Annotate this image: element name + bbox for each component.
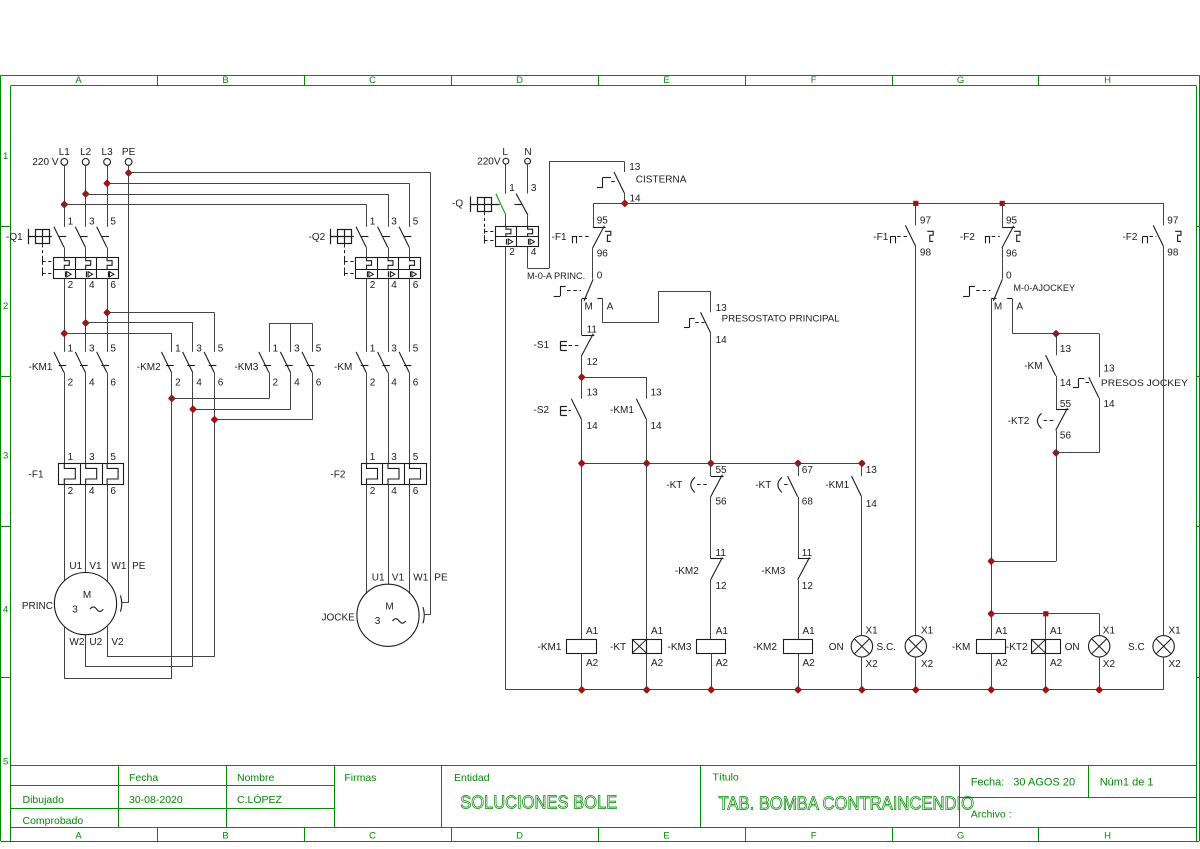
svg-text:13: 13 bbox=[651, 388, 663, 399]
star point bar above KM3 bbox=[269, 323, 312, 325]
svg-text:1: 1 bbox=[68, 344, 74, 355]
svg-text:5: 5 bbox=[110, 452, 116, 463]
svg-text:S.C: S.C bbox=[1128, 642, 1145, 653]
wire presostato out bbox=[710, 333, 712, 463]
svg-text:-S1: -S1 bbox=[534, 340, 550, 351]
svg-text:-KM3: -KM3 bbox=[761, 566, 785, 577]
svg-text:L1: L1 bbox=[59, 147, 71, 158]
svg-text:3: 3 bbox=[196, 344, 202, 355]
svg-text:13: 13 bbox=[866, 465, 878, 476]
svg-text:A2: A2 bbox=[1050, 658, 1063, 669]
node bottom rail KM3 coil bbox=[709, 688, 714, 693]
wire KM coil out bbox=[991, 653, 993, 690]
svg-text:4: 4 bbox=[89, 486, 95, 497]
svg-text:W2: W2 bbox=[69, 637, 84, 648]
wire KM1 coil out bbox=[581, 653, 583, 690]
svg-text:L3: L3 bbox=[102, 147, 114, 158]
svg-text:A1: A1 bbox=[716, 626, 729, 637]
wire KM2 out 4 bbox=[192, 373, 194, 668]
svg-text:Nombre: Nombre bbox=[237, 772, 275, 784]
svg-text:-KM: -KM bbox=[952, 642, 970, 653]
wire KT55 out bbox=[710, 497, 712, 559]
wire F1 out W1 bbox=[107, 485, 109, 581]
svg-text:30-08-2020: 30-08-2020 bbox=[129, 794, 183, 806]
svg-text:-KM2: -KM2 bbox=[753, 642, 777, 653]
wire S2 out bbox=[581, 419, 583, 463]
wire Q2 pole1 output bbox=[366, 279, 368, 352]
svg-text:PE: PE bbox=[434, 572, 448, 583]
svg-text:X1: X1 bbox=[866, 625, 879, 636]
svg-text:3: 3 bbox=[89, 217, 95, 228]
svg-text:13: 13 bbox=[716, 303, 728, 314]
svg-text:2: 2 bbox=[273, 377, 279, 388]
wire jockey A branch bbox=[1012, 299, 1014, 334]
svg-text:F: F bbox=[811, 831, 817, 842]
wire KM out 4 bbox=[388, 373, 390, 464]
node jockey coil rail left bbox=[989, 612, 994, 617]
svg-text:95: 95 bbox=[1006, 215, 1018, 226]
svg-text:A1: A1 bbox=[651, 626, 664, 637]
wire KT67 out bbox=[798, 497, 800, 559]
svg-text:M: M bbox=[994, 302, 1002, 313]
wire KT2-56 down bbox=[1056, 431, 1058, 562]
svg-text:2: 2 bbox=[370, 486, 376, 497]
svg-text:-KM1: -KM1 bbox=[29, 362, 53, 373]
svg-text:-F2: -F2 bbox=[960, 232, 975, 243]
node bottom rail KM1 coil bbox=[579, 688, 584, 693]
svg-text:56: 56 bbox=[716, 497, 728, 508]
svg-text:Fecha: Fecha bbox=[129, 772, 158, 784]
svg-text:55: 55 bbox=[1060, 399, 1072, 410]
wire control top rail bbox=[593, 203, 1163, 205]
svg-text:5: 5 bbox=[110, 344, 116, 355]
svg-text:U2: U2 bbox=[89, 637, 102, 648]
svg-text:SOLUCIONES BOLE: SOLUCIONES BOLE bbox=[460, 792, 617, 813]
wire Q1 pole3 output bbox=[107, 279, 109, 352]
node mid rail presostato bbox=[709, 461, 714, 466]
wire KM coil feed bbox=[991, 614, 993, 639]
svg-text:A: A bbox=[607, 302, 614, 313]
wire KT coil out bbox=[646, 653, 648, 690]
svg-text:Fecha:: Fecha: bbox=[971, 777, 1005, 789]
svg-text:-KT2: -KT2 bbox=[1008, 416, 1030, 427]
svg-text:1: 1 bbox=[370, 217, 376, 228]
svg-text:12: 12 bbox=[716, 581, 728, 592]
svg-text:3: 3 bbox=[3, 450, 8, 461]
svg-text:-KM2: -KM2 bbox=[675, 566, 699, 577]
svg-text:30 AGOS 20: 30 AGOS 20 bbox=[1013, 777, 1075, 789]
svg-text:Archivo :: Archivo : bbox=[971, 808, 1012, 820]
svg-text:-KM3: -KM3 bbox=[234, 362, 258, 373]
node tap to KM2 pole3 bbox=[83, 321, 88, 326]
svg-text:4: 4 bbox=[89, 377, 95, 388]
svg-text:Comprobado: Comprobado bbox=[23, 815, 84, 827]
wire S1 out bbox=[581, 356, 583, 377]
svg-text:-Q: -Q bbox=[452, 199, 463, 210]
svg-text:X2: X2 bbox=[866, 659, 879, 670]
wire KM1 out 6 bbox=[107, 373, 109, 464]
svg-text:A1: A1 bbox=[586, 626, 599, 637]
wire PRINC W2 bbox=[64, 626, 66, 678]
wire KM1 aux out bbox=[646, 419, 648, 463]
wire tap L2 to KM2 bbox=[86, 322, 193, 324]
svg-text:-KT: -KT bbox=[610, 642, 626, 653]
svg-text:4: 4 bbox=[3, 604, 8, 615]
node L3 tap bbox=[105, 181, 110, 186]
svg-text:A1: A1 bbox=[1050, 626, 1063, 637]
wire KM3 out 2 bbox=[269, 373, 271, 399]
svg-text:2: 2 bbox=[370, 280, 376, 291]
svg-text:3: 3 bbox=[375, 616, 381, 627]
svg-text:-F2: -F2 bbox=[330, 470, 345, 481]
wire control N drop bbox=[527, 164, 529, 193]
svg-text:G: G bbox=[957, 75, 964, 86]
node mid rail KT67 bbox=[796, 461, 801, 466]
svg-text:-F2: -F2 bbox=[1122, 232, 1137, 243]
wire top rail corner to F2-97 bbox=[1163, 203, 1165, 225]
wire PRINC U2 bbox=[85, 635, 87, 667]
wire KM2 coil out bbox=[798, 653, 800, 690]
svg-text:97: 97 bbox=[920, 216, 932, 227]
svg-text:6: 6 bbox=[110, 486, 116, 497]
svg-text:N: N bbox=[524, 147, 531, 158]
svg-text:M-0-AJOCKEY: M-0-AJOCKEY bbox=[1013, 283, 1075, 293]
svg-text:A1: A1 bbox=[995, 626, 1008, 637]
svg-text:4: 4 bbox=[294, 377, 300, 388]
svg-text:-F1: -F1 bbox=[552, 232, 567, 243]
wire KM1 out 4 bbox=[85, 373, 87, 464]
svg-text:PE: PE bbox=[132, 561, 146, 572]
svg-text:4: 4 bbox=[531, 247, 537, 258]
signal lamp S.C right bbox=[1153, 636, 1174, 657]
svg-text:PRESOSTATO PRINCIPAL: PRESOSTATO PRINCIPAL bbox=[722, 314, 840, 324]
svg-text:W1: W1 bbox=[111, 561, 126, 572]
svg-text:B: B bbox=[222, 75, 228, 86]
svg-text:H: H bbox=[1104, 75, 1111, 86]
wire KM1aux branch to KT coil bbox=[646, 463, 648, 639]
svg-text:Entidad: Entidad bbox=[454, 772, 490, 784]
svg-text:A2: A2 bbox=[995, 658, 1008, 669]
svg-text:220V: 220V bbox=[477, 156, 501, 167]
node KT2 out junction bbox=[1054, 451, 1059, 456]
svg-text:V1: V1 bbox=[392, 572, 405, 583]
svg-text:1: 1 bbox=[509, 183, 515, 194]
svg-text:X2: X2 bbox=[921, 659, 934, 670]
wire L2 feed to Q2 bbox=[86, 194, 388, 196]
wire to KM3 coil bbox=[710, 580, 712, 639]
svg-text:3: 3 bbox=[89, 452, 95, 463]
svg-text:6: 6 bbox=[110, 280, 116, 291]
svg-text:JOCKE: JOCKE bbox=[322, 612, 356, 623]
svg-text:-F1: -F1 bbox=[29, 470, 44, 481]
svg-text:14: 14 bbox=[716, 335, 728, 346]
svg-text:1: 1 bbox=[370, 452, 376, 463]
svg-text:2: 2 bbox=[68, 377, 74, 388]
svg-text:-KM: -KM bbox=[1024, 361, 1042, 372]
svg-text:4: 4 bbox=[391, 486, 397, 497]
wire Q1 pole2 output bbox=[85, 279, 87, 352]
svg-text:C: C bbox=[369, 831, 376, 842]
svg-text:11: 11 bbox=[716, 548, 727, 559]
svg-text:-KT2: -KT2 bbox=[1006, 642, 1028, 653]
svg-text:CISTERNA: CISTERNA bbox=[636, 174, 687, 185]
svg-text:14: 14 bbox=[1060, 378, 1072, 389]
svg-text:5: 5 bbox=[110, 217, 116, 228]
svg-text:2: 2 bbox=[68, 280, 74, 291]
svg-text:Núm1 de 1: Núm1 de 1 bbox=[1100, 777, 1154, 789]
svg-text:D: D bbox=[516, 75, 523, 86]
wire join M branch bbox=[991, 561, 1056, 563]
svg-text:-S2: -S2 bbox=[534, 405, 550, 416]
PE connection arc at JOCKE motor bbox=[425, 614, 431, 616]
wire KM3 coil out bbox=[711, 653, 713, 690]
svg-text:3: 3 bbox=[89, 344, 95, 355]
svg-text:2: 2 bbox=[175, 377, 181, 388]
svg-text:PE: PE bbox=[122, 147, 136, 158]
svg-text:A: A bbox=[75, 75, 82, 86]
wire SC lamp out bbox=[915, 657, 917, 690]
svg-text:56: 56 bbox=[1060, 430, 1072, 441]
svg-text:12: 12 bbox=[802, 581, 814, 592]
wire KM1-14 to lamp bbox=[861, 497, 863, 636]
svg-text:96: 96 bbox=[597, 248, 609, 259]
svg-text:6: 6 bbox=[413, 377, 419, 388]
drawing frame border bbox=[1, 75, 1199, 77]
wire KM out 6 bbox=[409, 373, 411, 464]
title block grid bbox=[11, 765, 1197, 767]
node KM2-KM3 junction 4 bbox=[191, 407, 196, 412]
svg-text:3: 3 bbox=[391, 217, 397, 228]
node KM2-KM3 junction 2 bbox=[170, 396, 175, 401]
svg-text:14: 14 bbox=[1104, 399, 1116, 410]
node mid rail KM1aux bbox=[644, 461, 649, 466]
svg-text:2: 2 bbox=[3, 301, 8, 312]
signal lamp S.C. left bbox=[905, 636, 926, 657]
wire Q2 pole3 output bbox=[409, 279, 411, 352]
node bottom rail KT2 coil bbox=[1044, 688, 1049, 693]
svg-text:1: 1 bbox=[273, 344, 279, 355]
svg-text:L: L bbox=[502, 147, 508, 158]
wire KM1 out 2 bbox=[64, 373, 66, 464]
svg-text:X1: X1 bbox=[1103, 625, 1116, 636]
svg-text:0: 0 bbox=[597, 271, 603, 282]
wire to KM1 aux bbox=[582, 377, 647, 379]
svg-text:-Q1: -Q1 bbox=[6, 232, 23, 243]
svg-text:3: 3 bbox=[391, 344, 397, 355]
svg-text:A: A bbox=[1016, 302, 1023, 313]
svg-text:-KM1: -KM1 bbox=[538, 642, 562, 653]
svg-text:98: 98 bbox=[920, 247, 932, 258]
svg-text:V2: V2 bbox=[111, 637, 124, 648]
svg-text:W1: W1 bbox=[413, 572, 428, 583]
svg-text:A1: A1 bbox=[803, 626, 816, 637]
PE connection arc at PRINC motor bbox=[122, 602, 128, 604]
signal lamp ON right bbox=[1089, 636, 1110, 657]
svg-text:X1: X1 bbox=[921, 625, 934, 636]
svg-text:1: 1 bbox=[68, 217, 74, 228]
wire PE feed to jockey bbox=[129, 172, 431, 174]
svg-text:Firmas: Firmas bbox=[344, 772, 376, 784]
svg-text:3: 3 bbox=[391, 452, 397, 463]
wire control bottom rail bbox=[506, 689, 1164, 691]
svg-text:11: 11 bbox=[587, 324, 598, 335]
wire presos jockey out bbox=[1099, 398, 1101, 453]
wire tap L1 to KM2 bbox=[64, 333, 172, 335]
wire F2 out V1 bbox=[388, 485, 390, 584]
wire F2 out U1 bbox=[366, 485, 368, 593]
svg-text:13: 13 bbox=[587, 388, 599, 399]
svg-text:2: 2 bbox=[370, 377, 376, 388]
svg-text:55: 55 bbox=[716, 465, 728, 476]
wire L1 feed to Q2 bbox=[64, 204, 366, 206]
wire PE vertical bbox=[128, 165, 130, 603]
wire N riser bbox=[527, 247, 529, 269]
svg-text:3: 3 bbox=[531, 183, 537, 194]
svg-text:6: 6 bbox=[413, 486, 419, 497]
svg-text:12: 12 bbox=[587, 357, 599, 368]
wire L3 feed to Q2 bbox=[107, 183, 409, 185]
svg-text:5: 5 bbox=[413, 452, 419, 463]
node L1 tap bbox=[62, 202, 67, 207]
node S1 output junction bbox=[579, 375, 584, 380]
wire KM2 out 6 bbox=[214, 373, 216, 657]
svg-text:X2: X2 bbox=[1103, 659, 1116, 670]
svg-text:A2: A2 bbox=[803, 658, 816, 669]
svg-text:-KM1: -KM1 bbox=[610, 405, 634, 416]
svg-text:A2: A2 bbox=[716, 658, 729, 669]
svg-text:1: 1 bbox=[175, 344, 181, 355]
svg-text:4: 4 bbox=[391, 280, 397, 291]
node jockey A junction bbox=[1054, 331, 1059, 336]
svg-text:ON: ON bbox=[829, 642, 844, 653]
node tap to KM2 pole1 bbox=[62, 331, 67, 336]
wire F2-98 to lamp bbox=[1163, 246, 1165, 636]
svg-text:13: 13 bbox=[629, 162, 641, 173]
svg-text:U1: U1 bbox=[372, 572, 385, 583]
svg-text:PRESOS JOCKEY: PRESOS JOCKEY bbox=[1101, 378, 1188, 388]
svg-text:4: 4 bbox=[196, 377, 202, 388]
wire Q2 pole2 output bbox=[388, 279, 390, 352]
node jockey coil rail KT2 bbox=[1043, 611, 1048, 616]
svg-text:A2: A2 bbox=[651, 658, 664, 669]
wire to ON lamp right bbox=[1099, 614, 1101, 636]
svg-text:-KM2: -KM2 bbox=[137, 362, 161, 373]
wire right ON lamp out bbox=[1099, 657, 1101, 690]
node jockey M join bbox=[989, 559, 994, 564]
wire M branch bbox=[581, 299, 583, 335]
svg-text:X1: X1 bbox=[1169, 625, 1182, 636]
svg-text:D: D bbox=[516, 831, 523, 842]
signal lamp ON left bbox=[851, 636, 872, 657]
svg-text:14: 14 bbox=[866, 499, 878, 510]
wire jockey M branch bbox=[991, 299, 993, 614]
svg-text:ON: ON bbox=[1065, 642, 1080, 653]
svg-text:-KM3: -KM3 bbox=[668, 642, 692, 653]
node PE tap bbox=[126, 171, 131, 176]
node L2 tap bbox=[83, 192, 88, 197]
svg-text:Título: Título bbox=[713, 771, 739, 783]
svg-text:5: 5 bbox=[413, 217, 419, 228]
wire Q1 pole1 output bbox=[64, 279, 66, 352]
wire L2 vertical bbox=[85, 165, 87, 227]
svg-text:-KM1: -KM1 bbox=[825, 480, 849, 491]
svg-text:L2: L2 bbox=[80, 147, 92, 158]
svg-text:M: M bbox=[585, 302, 593, 313]
node bottom rail SC lamp bbox=[914, 688, 919, 693]
svg-text:V1: V1 bbox=[89, 561, 102, 572]
svg-text:M-0-A PRINC.: M-0-A PRINC. bbox=[527, 271, 585, 281]
node top rail F2-95 bbox=[1000, 201, 1005, 206]
svg-text:5: 5 bbox=[218, 344, 224, 355]
node bottom rail KT coil bbox=[644, 688, 649, 693]
wire jockey coil rail bbox=[991, 613, 1099, 615]
wire to KM2 coil bbox=[798, 580, 800, 639]
svg-text:220 V: 220 V bbox=[32, 157, 58, 168]
svg-text:3: 3 bbox=[72, 604, 78, 615]
wire KT2 coil feed bbox=[1045, 614, 1047, 639]
node mid rail S2 bbox=[579, 461, 584, 466]
svg-text:68: 68 bbox=[802, 497, 814, 508]
svg-text:-KT: -KT bbox=[666, 480, 682, 491]
node top rail F1-97 bbox=[913, 201, 918, 206]
svg-text:4: 4 bbox=[89, 280, 95, 291]
svg-text:M: M bbox=[83, 590, 91, 601]
svg-text:96: 96 bbox=[1006, 248, 1018, 259]
svg-text:C: C bbox=[369, 75, 376, 86]
wire KM2 out 2 bbox=[171, 373, 173, 679]
svg-text:Dibujado: Dibujado bbox=[23, 794, 65, 806]
svg-text:6: 6 bbox=[218, 377, 224, 388]
svg-text:97: 97 bbox=[1167, 216, 1179, 227]
svg-text:5: 5 bbox=[3, 756, 8, 767]
svg-text:6: 6 bbox=[316, 377, 322, 388]
svg-text:13: 13 bbox=[1104, 364, 1116, 375]
svg-text:0: 0 bbox=[1006, 271, 1012, 282]
svg-text:E: E bbox=[663, 75, 669, 86]
wire L return rail drop bbox=[505, 247, 507, 690]
svg-text:1: 1 bbox=[68, 452, 74, 463]
wire S2 branch to KM1 coil bbox=[581, 463, 583, 639]
svg-text:A2: A2 bbox=[586, 658, 599, 669]
wire KM3 out 4 bbox=[290, 373, 292, 410]
wire F1-98 to lamp bbox=[915, 246, 917, 636]
wire F1 out U1 bbox=[64, 485, 66, 581]
svg-text:X2: X2 bbox=[1169, 659, 1182, 670]
svg-text:14: 14 bbox=[587, 421, 599, 432]
wire ON lamp out bbox=[861, 657, 863, 690]
wire right SC lamp out bbox=[1163, 657, 1165, 690]
svg-text:M: M bbox=[385, 602, 393, 613]
svg-text:1: 1 bbox=[370, 344, 376, 355]
svg-text:14: 14 bbox=[651, 421, 663, 432]
svg-text:6: 6 bbox=[110, 377, 116, 388]
svg-text:A: A bbox=[75, 831, 82, 842]
svg-text:-KT: -KT bbox=[755, 480, 771, 491]
svg-text:S.C.: S.C. bbox=[877, 642, 896, 653]
svg-text:U1: U1 bbox=[69, 561, 82, 572]
svg-text:-F1: -F1 bbox=[873, 232, 888, 243]
svg-text:14: 14 bbox=[630, 193, 642, 204]
svg-text:1: 1 bbox=[3, 151, 8, 162]
svg-text:2: 2 bbox=[68, 486, 74, 497]
svg-text:95: 95 bbox=[597, 215, 609, 226]
svg-text:PRINC: PRINC bbox=[22, 601, 53, 612]
svg-text:E: E bbox=[663, 831, 669, 842]
node tap to KM2 pole5 bbox=[105, 310, 110, 315]
wire control mid rail bbox=[582, 463, 862, 465]
svg-text:5: 5 bbox=[316, 344, 322, 355]
svg-text:F: F bbox=[811, 75, 817, 86]
